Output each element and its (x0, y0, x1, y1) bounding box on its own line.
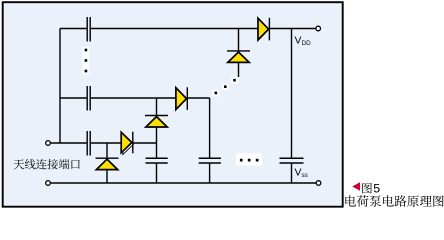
capacitor C5 (199, 158, 221, 163)
capacitor C1 (87, 17, 90, 42)
wire rail1 top (60, 28, 316, 30)
terminal antenna bottom (46, 181, 51, 186)
continuation dots diagonal (212, 77, 238, 96)
wire rail3 antenna (50, 142, 156, 144)
diode D6 (up, x=238.5) (227, 51, 250, 63)
continuation dots vertical (82, 47, 89, 75)
capacitor C2 (87, 86, 90, 111)
wire bottom rail (50, 182, 316, 184)
wire left spine (59, 29, 61, 144)
label antenna port (14, 159, 80, 169)
terminal antenna top (46, 141, 51, 146)
caption line2 (345, 195, 443, 207)
wire rail2 drop to C5 (209, 98, 211, 183)
diode D1 (rail1, right) (258, 18, 269, 41)
wire branch D6 stub (238, 29, 240, 78)
capacitor C4 (146, 158, 168, 163)
capacitor C3 (87, 131, 90, 156)
capacitor C6 (280, 158, 304, 163)
continuation dots horizontal (236, 154, 262, 166)
wire rail2 (60, 97, 210, 99)
diode D3 (rail3, right) (121, 132, 133, 155)
caption line1 图5 (362, 183, 372, 194)
wire Vdd drop to C6 (291, 29, 293, 184)
terminal Vdd (316, 26, 321, 31)
caption arrow (352, 182, 360, 191)
wire branch D5 node A (156, 98, 158, 183)
diode D4 (up, x=107) (96, 158, 119, 169)
svg-text:5: 5 (373, 182, 380, 196)
wire branch D4 (106, 143, 108, 183)
diode D5 (up, x=156.5) (145, 116, 168, 128)
diode D2 (rail2, right) (176, 87, 187, 110)
schematic frame (3, 2, 343, 207)
terminal Vss (316, 181, 321, 186)
